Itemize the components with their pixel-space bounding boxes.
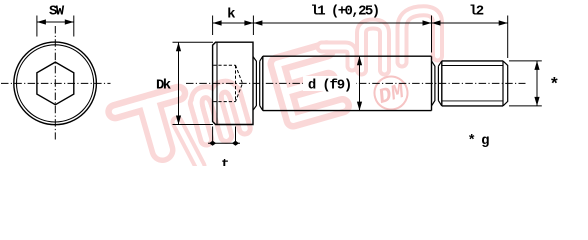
watermark letter T inner	[115, 93, 178, 111]
dimension SW line with arrows	[37, 21, 74, 23]
extension lines k	[212, 16, 214, 36]
watermark second tile fragment	[177, 122, 200, 166]
hex socket	[37, 62, 74, 105]
thread minor diameter thin lines	[442, 66, 503, 101]
watermark letter m legs	[194, 84, 246, 141]
extension lines t	[212, 127, 214, 144]
svg-text:l1 (+0,25): l1 (+0,25)	[310, 4, 378, 20]
dimension line k	[213, 22, 254, 24]
svg-text:*: *	[549, 76, 558, 95]
watermark letter E outer	[277, 50, 342, 120]
head chamfer inner circle	[17, 45, 94, 122]
watermark DM stamp	[371, 73, 412, 114]
dimension line Dk	[178, 42, 180, 124]
thread undercut groove	[432, 61, 442, 106]
svg-text:Dk: Dk	[156, 77, 171, 93]
svg-text:SW: SW	[49, 4, 65, 20]
svg-text:d (f9): d (f9)	[308, 78, 351, 94]
thread end chamfer	[503, 61, 508, 106]
dimension SW extension lines	[36, 16, 38, 37]
extension line l2 right	[507, 16, 509, 59]
svg-text:t: t	[221, 157, 229, 166]
svg-text:* g: * g	[468, 133, 490, 149]
watermark upper tile arch small	[362, 24, 385, 70]
screw head outline	[213, 42, 253, 124]
hidden hex socket lines	[213, 65, 242, 101]
watermark upper tile corner fragment	[322, 47, 352, 66]
dimension line l2	[432, 22, 508, 24]
thread major diameter lines	[442, 61, 503, 106]
head outer circle	[14, 42, 97, 125]
extension lines Dk	[173, 41, 214, 43]
horizontal centerline (end view)	[1, 82, 111, 84]
vertical centerline (end view)	[54, 26, 56, 140]
shoulder cylinder	[263, 56, 432, 110]
watermark TME logo	[115, 50, 342, 166]
watermark letter E inner	[277, 50, 342, 120]
axis centerline (side view)	[186, 82, 526, 84]
extension lines *	[509, 60, 542, 62]
extension line l1 right	[431, 16, 433, 53]
dimension line l1	[253, 22, 431, 24]
watermark letter T outer	[115, 93, 178, 111]
svg-text:l2: l2	[469, 4, 484, 20]
dimension line t with diamond ends	[208, 142, 240, 144]
under-head groove	[253, 56, 263, 110]
head chamfer witness line	[216, 43, 218, 125]
svg-text:DM: DM	[376, 80, 408, 109]
svg-text:k: k	[227, 7, 235, 23]
dimension line *	[536, 61, 538, 106]
watermark upper tile arch large	[402, 11, 438, 62]
